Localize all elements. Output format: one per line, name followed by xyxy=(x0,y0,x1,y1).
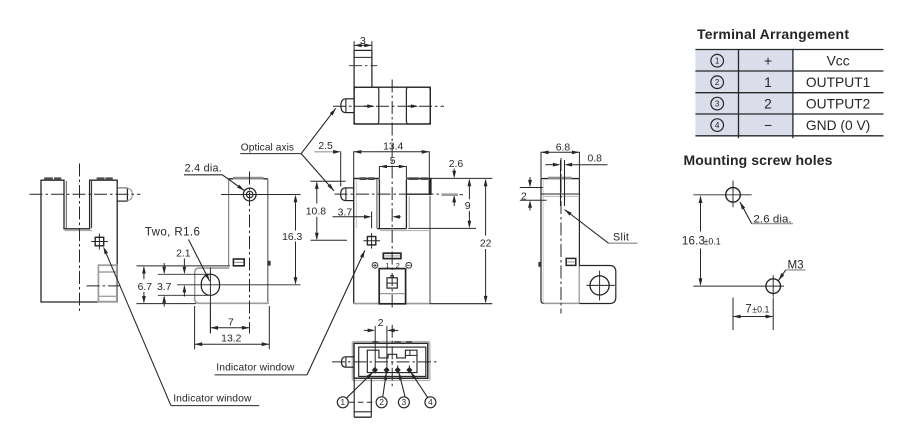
svg-text:3.7: 3.7 xyxy=(338,208,353,219)
svg-text:16.3: 16.3 xyxy=(682,235,705,248)
svg-text:2: 2 xyxy=(521,192,527,203)
svg-text:OUTPUT2: OUTPUT2 xyxy=(806,96,870,111)
svg-text:13.4: 13.4 xyxy=(383,142,403,153)
svg-text:6.7: 6.7 xyxy=(138,282,153,293)
svg-text:4: 4 xyxy=(428,398,433,407)
svg-text:Indicator window: Indicator window xyxy=(173,393,252,404)
svg-text:7: 7 xyxy=(228,317,234,328)
svg-text:2: 2 xyxy=(378,318,384,329)
svg-text:1: 1 xyxy=(715,57,720,66)
svg-text:5: 5 xyxy=(390,156,396,167)
svg-text:Slit: Slit xyxy=(613,232,629,244)
svg-text:2.6: 2.6 xyxy=(449,159,464,170)
svg-text:0.8: 0.8 xyxy=(588,154,603,165)
svg-text:Optical axis: Optical axis xyxy=(241,143,294,154)
svg-text:1: 1 xyxy=(341,398,346,407)
svg-text:2: 2 xyxy=(715,78,720,87)
svg-text:10.8: 10.8 xyxy=(306,206,326,217)
svg-text:9: 9 xyxy=(465,201,471,212)
svg-text:2.4 dia.: 2.4 dia. xyxy=(185,163,222,175)
svg-text:4: 4 xyxy=(715,121,720,130)
svg-text:22: 22 xyxy=(480,239,492,250)
svg-text:3.7: 3.7 xyxy=(157,282,172,293)
svg-text:1: 1 xyxy=(764,75,772,90)
svg-text:OUTPUT1: OUTPUT1 xyxy=(806,75,870,90)
svg-text:2.5: 2.5 xyxy=(318,141,333,152)
svg-text:−: − xyxy=(764,118,772,133)
svg-text:16.3: 16.3 xyxy=(282,232,302,243)
svg-text:3: 3 xyxy=(715,100,720,109)
svg-text:2: 2 xyxy=(764,96,772,111)
svg-text:+: + xyxy=(764,54,772,69)
svg-text:Vcc: Vcc xyxy=(827,54,850,69)
svg-text:13.2: 13.2 xyxy=(221,333,241,344)
svg-text:7: 7 xyxy=(745,303,751,316)
svg-text:3: 3 xyxy=(402,398,407,407)
svg-text:Terminal Arrangement: Terminal Arrangement xyxy=(697,26,849,42)
svg-text:±0.1: ±0.1 xyxy=(704,237,721,247)
svg-text:2: 2 xyxy=(379,398,384,407)
svg-text:Indicator window: Indicator window xyxy=(216,363,295,374)
svg-text:Two, R1.6: Two, R1.6 xyxy=(145,226,200,238)
svg-text:±0.1: ±0.1 xyxy=(752,305,769,315)
svg-text:GND (0 V): GND (0 V) xyxy=(806,118,870,133)
svg-text:Mounting screw holes: Mounting screw holes xyxy=(684,152,833,168)
svg-text:2.1: 2.1 xyxy=(176,249,191,260)
